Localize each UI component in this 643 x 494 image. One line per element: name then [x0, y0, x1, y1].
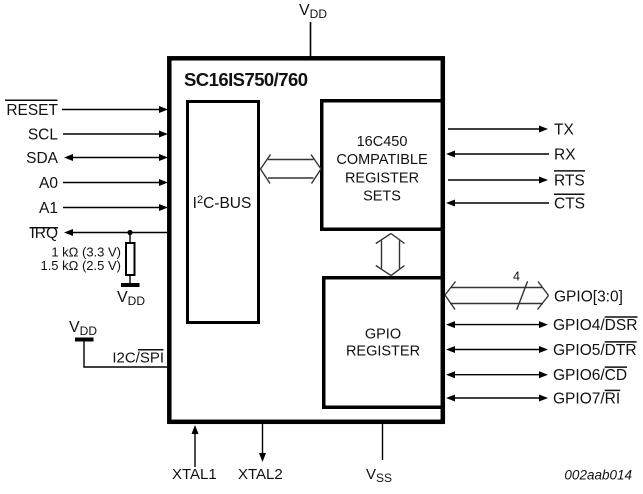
svg-text:A0: A0 [39, 175, 58, 192]
power VDD label (pull-up) [117, 289, 145, 308]
wire VDD to chip top [310, 22, 312, 58]
power VDD label (I2C/SPI select) [69, 319, 97, 338]
node junction on IRQ line [127, 230, 132, 235]
pin RTS [448, 171, 585, 190]
pin GPIO4/DSR [446, 317, 638, 334]
svg-text:4: 4 [513, 270, 520, 284]
pin RX [446, 147, 576, 164]
svg-text:RX: RX [554, 147, 576, 164]
svg-text:SC16IS750/760: SC16IS750/760 [184, 69, 308, 90]
label bus width 4 [513, 270, 520, 284]
svg-text:IRQ: IRQ [30, 225, 58, 242]
wire junction to resistor [129, 233, 131, 244]
pin VSS [366, 424, 392, 485]
label 1.5 kOhm (2.5 V) [40, 258, 121, 273]
bus arrow register sets to GPIO register [376, 234, 405, 276]
svg-text:002aab014: 002aab014 [564, 468, 632, 483]
pin IRQ [30, 225, 168, 242]
pin CTS [446, 194, 585, 212]
svg-text:I2C/SPI: I2C/SPI [112, 350, 164, 367]
block GPIO register [324, 278, 443, 408]
svg-text:RESET: RESET [6, 102, 58, 119]
power VDD bar (pull-up) [121, 283, 140, 287]
pin TX [448, 122, 574, 139]
svg-text:TX: TX [554, 122, 574, 139]
pin SDA [26, 150, 168, 167]
svg-text:XTAL1: XTAL1 [172, 466, 217, 483]
label SC16IS750/760 [184, 69, 308, 90]
svg-text:GPIO: GPIO [365, 326, 401, 342]
figure id 002aab014 [564, 468, 632, 483]
pin GPIO7/RI [446, 390, 620, 407]
pin GPIO5/DTR [446, 342, 637, 359]
chip SC16IS750/760 outline [169, 58, 443, 422]
svg-text:16C450: 16C450 [357, 134, 408, 150]
svg-text:GPIO4/DSR: GPIO4/DSR [553, 317, 637, 334]
svg-text:GPIO7/RI: GPIO7/RI [553, 391, 620, 408]
svg-text:GPIO6/CD: GPIO6/CD [553, 367, 627, 384]
svg-text:SETS: SETS [363, 189, 401, 205]
svg-text:COMPATIBLE: COMPATIBLE [336, 152, 428, 168]
power VDD bar (I2C/SPI select) [75, 338, 94, 342]
svg-text:CTS: CTS [554, 196, 585, 213]
wire I2C/SPI select to chip [84, 342, 167, 368]
svg-text:1.5 kΩ (2.5 V): 1.5 kΩ (2.5 V) [40, 258, 121, 273]
power VDD label top [299, 2, 327, 21]
resistor pull-up [126, 243, 135, 275]
svg-text:RTS: RTS [554, 173, 585, 190]
bus arrow I2C-BUS to register sets [261, 155, 322, 184]
pin GPIO6/CD [446, 367, 627, 384]
wire resistor to VDD bar [129, 275, 131, 283]
pin RESET [5, 100, 168, 119]
svg-text:A1: A1 [39, 200, 58, 217]
pin XTAL1 [172, 425, 217, 483]
svg-text:XTAL2: XTAL2 [238, 466, 283, 483]
svg-text:REGISTER: REGISTER [345, 170, 419, 186]
label GPIO[3:0] [554, 289, 623, 306]
block 16C450 compatible register sets [322, 101, 443, 230]
svg-text:SDA: SDA [26, 150, 59, 167]
svg-text:SCL: SCL [28, 127, 59, 144]
bus GPIO[3:0] open arrow [445, 282, 549, 310]
svg-text:GPIO5/DTR: GPIO5/DTR [553, 342, 637, 359]
pin SCL [28, 127, 168, 144]
pin A1 [39, 200, 168, 217]
svg-text:GPIO[3:0]: GPIO[3:0] [554, 289, 623, 306]
pin XTAL2 [238, 424, 283, 483]
bus width slash [517, 281, 528, 309]
block I2C-BUS [188, 102, 259, 323]
label 1 kOhm (3.3 V) [51, 245, 121, 260]
pin A0 [39, 175, 168, 192]
label I2C/SPI [112, 350, 164, 367]
svg-text:REGISTER: REGISTER [346, 343, 420, 359]
